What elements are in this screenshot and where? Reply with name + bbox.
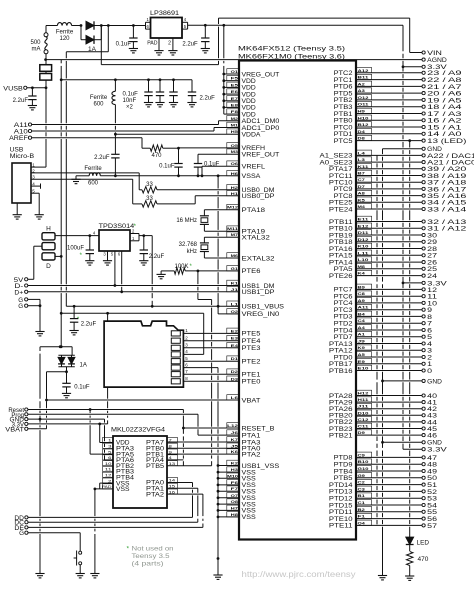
- svg-text:D2: D2: [231, 369, 239, 374]
- svg-text:A11: A11: [14, 123, 29, 129]
- capacitor C12 2.2uF (TPD out): [140, 236, 165, 261]
- ground (LP pad): [154, 51, 163, 55]
- svg-text:B7: B7: [358, 171, 366, 176]
- node D-: [14, 284, 27, 290]
- svg-text:C9: C9: [358, 452, 366, 457]
- svg-text:E7: E7: [231, 96, 239, 101]
- svg-text:GND: GND: [427, 146, 442, 153]
- node GND (right 3): [381, 440, 442, 447]
- node 5V: [14, 278, 34, 284]
- wire D pad to VUSB rail: [55, 255, 63, 258]
- pin 6 SD GND: [183, 362, 218, 367]
- wire VDDA: [115, 133, 239, 135]
- svg-text:kHz: kHz: [187, 249, 197, 255]
- capacitor C10 0.1uF (VREF_OUT): [194, 154, 220, 176]
- wire net D- (USB1_DM): [28, 285, 239, 287]
- wire 470 to VREFH: [163, 147, 239, 150]
- svg-text:PTE5: PTE5: [242, 331, 262, 338]
- svg-text:13: 13: [169, 461, 177, 466]
- svg-text:B2: B2: [358, 507, 366, 512]
- svg-text:B11: B11: [358, 75, 370, 80]
- capacitor C7 bank3: [169, 80, 177, 103]
- wire VIN branch down: [66, 26, 108, 52]
- svg-text:C8: C8: [358, 291, 366, 296]
- svg-text:J6: J6: [231, 430, 240, 435]
- ground (bank3): [169, 103, 178, 107]
- pin 2 LP38691: [168, 38, 173, 51]
- wire net VIN top rail: [101, 18, 409, 65]
- svg-text:H: H: [46, 226, 51, 233]
- svg-text:16 MHz: 16 MHz: [176, 218, 197, 224]
- wire net VSSA drop (R_a): [217, 176, 220, 308]
- capacitor C11 100uF: [67, 236, 94, 261]
- wire USB shield: [16, 203, 18, 215]
- svg-text:C12: C12: [358, 417, 370, 422]
- node AREF: [9, 136, 32, 142]
- connector J2 micro SD card: [104, 321, 183, 387]
- ground (100uF): [85, 261, 94, 265]
- svg-text:10: 10: [105, 461, 113, 466]
- wire MKL PTA0 to DD: [167, 483, 193, 518]
- wire diode output: [94, 24, 145, 27]
- jumper pad H: [42, 226, 55, 240]
- svg-text:LP38691: LP38691: [150, 10, 179, 17]
- svg-text:D3: D3: [231, 376, 239, 381]
- svg-text:D10: D10: [358, 410, 370, 415]
- wire A11 to ADC1_DM0: [32, 121, 239, 125]
- svg-text:VREG_IN0: VREG_IN0: [242, 311, 280, 318]
- svg-text:2: 2: [168, 41, 171, 47]
- ground (USB shield): [13, 215, 22, 219]
- svg-text:J1: J1: [231, 287, 240, 292]
- svg-text:PTB5: PTB5: [146, 464, 165, 470]
- svg-text:0.1uF: 0.1uF: [159, 164, 175, 170]
- node VUSB: [3, 86, 47, 92]
- svg-text:E2: E2: [231, 328, 239, 333]
- svg-text:57: 57: [427, 523, 437, 530]
- svg-text:5V: 5V: [14, 278, 23, 284]
- wire LP output join: [187, 22, 189, 29]
- wire VBAT tap: [45, 372, 66, 429]
- svg-text:E12: E12: [358, 223, 370, 228]
- svg-text:0: 0: [427, 368, 432, 375]
- ground (USB pin5): [35, 215, 44, 219]
- svg-text:C1: C1: [358, 500, 366, 505]
- svg-text:K10: K10: [358, 244, 370, 249]
- svg-text:33: 33: [146, 196, 153, 202]
- node 3.3V (bottom): [403, 447, 448, 454]
- svg-text:VIN: VIN: [427, 50, 442, 57]
- ground (AGND bead): [71, 179, 80, 183]
- capacitor C1 0.1uF (LP38691 input): [116, 26, 138, 49]
- pin 4 USB ID: [31, 182, 41, 189]
- pin 4 TPD3S014: [93, 230, 96, 235]
- wire TPD output down: [151, 236, 154, 308]
- svg-text:3.3V: 3.3V: [427, 447, 448, 454]
- wire MKL PTB1 to chip PTA2: [167, 453, 239, 455]
- pin MKL02 VSS wires: [94, 483, 114, 573]
- node GND (right 1): [383, 146, 443, 153]
- pin 5 TPD3S014: [111, 251, 116, 287]
- svg-text:L10: L10: [358, 257, 370, 262]
- inductor L3 Ferrite 600 (VDDA filter): [90, 80, 117, 155]
- svg-text:D9: D9: [358, 430, 366, 435]
- crystal Y2 32.768 kHz: [179, 237, 239, 258]
- svg-text:2.2uF: 2.2uF: [81, 322, 97, 328]
- pin 1 LP38691: [146, 17, 151, 22]
- svg-text:LED: LED: [417, 540, 430, 547]
- svg-text:10nF: 10nF: [123, 98, 137, 104]
- svg-text:http://www.pjrc.com/teensy: http://www.pjrc.com/teensy: [242, 570, 356, 579]
- wire VBAT diode feed: [40, 345, 72, 355]
- svg-text:3.3V: 3.3V: [427, 280, 448, 287]
- resistor R2 33 (USB0_DM): [139, 173, 239, 193]
- svg-text:H2: H2: [231, 185, 239, 190]
- svg-text:H1: H1: [231, 191, 239, 196]
- fuse F1 500mA (polyfuse): [30, 26, 48, 65]
- resistor R4 100K (PTE6): [161, 264, 239, 274]
- wire rail VIN-branch vertical: [65, 52, 67, 306]
- svg-text:K9: K9: [358, 345, 366, 350]
- pin 3 SD (PTE3): [183, 343, 239, 348]
- svg-text:H10: H10: [358, 115, 370, 120]
- node G (2): [18, 304, 41, 310]
- ground (left rail): [35, 574, 44, 578]
- svg-text:H12: H12: [358, 391, 370, 396]
- svg-text:D11: D11: [358, 230, 370, 235]
- svg-text:M12: M12: [227, 205, 239, 210]
- svg-text:MK64FX512 (Teensy 3.5): MK64FX512 (Teensy 3.5): [238, 46, 345, 53]
- wire G risers to ground: [39, 299, 41, 331]
- svg-text:VREF_OUT: VREF_OUT: [242, 152, 280, 159]
- wire bus aux (right): [376, 155, 378, 524]
- svg-text:J5: J5: [231, 443, 240, 448]
- svg-text:K1: K1: [231, 281, 239, 286]
- svg-text:A5: A5: [358, 352, 366, 357]
- svg-text:H7: H7: [231, 505, 239, 510]
- node AGND: [422, 57, 447, 64]
- svg-text:G: G: [18, 304, 23, 310]
- wire net GND bus (SD/MKL): [217, 368, 220, 575]
- wire net VDD cap bus: [61, 78, 192, 81]
- pin 4 LP38691: [182, 17, 188, 22]
- LED D3: [406, 537, 429, 551]
- pin 7 SD (PTE1): [183, 369, 239, 374]
- svg-text:0.1uF: 0.1uF: [116, 42, 132, 48]
- jumper pad mid (5V): [42, 243, 55, 250]
- svg-text:K4: K4: [358, 271, 366, 276]
- svg-text:VSSA: VSSA: [242, 173, 262, 180]
- wire net AGND: [44, 58, 422, 61]
- svg-text:A11: A11: [358, 305, 370, 310]
- IC U1 MK64FX512/MK66FX1M0: [238, 46, 356, 540]
- main chip right pins, wires and pads: [320, 68, 474, 530]
- connector J1 USB Micro-B: [10, 148, 35, 204]
- wire 3.3V-SD riser to pads: [107, 313, 109, 424]
- wire ferrite to diodes: [72, 24, 83, 27]
- svg-text:EXTAL32: EXTAL32: [242, 255, 276, 262]
- svg-text:600: 600: [93, 102, 104, 108]
- svg-text:PTA2: PTA2: [242, 451, 262, 458]
- svg-text:120: 120: [59, 36, 70, 42]
- inductor L1 Ferrite 120: [56, 23, 74, 42]
- svg-text:PTE4: PTE4: [242, 338, 262, 345]
- wire A10 to ADC1_DP0: [32, 128, 239, 132]
- svg-text:O5: O5: [231, 143, 239, 148]
- svg-text:M10: M10: [227, 473, 239, 478]
- wire net USB1_VBUS: [66, 305, 239, 308]
- node D+: [14, 290, 27, 296]
- pin 3 TPD3S014: [103, 251, 107, 261]
- ground (bank1): [144, 103, 153, 107]
- ground (LP output cap): [201, 49, 210, 53]
- wire net VDD bus (left): [222, 25, 239, 114]
- wire diode to cap: [65, 367, 68, 384]
- svg-text:O2: O2: [231, 309, 239, 314]
- svg-text:C7: C7: [358, 177, 366, 182]
- svg-text:VBAT: VBAT: [5, 427, 24, 433]
- pin 5 SD (PTE2): [183, 356, 239, 361]
- capacitor C4 2.2uF (VDDA): [94, 154, 119, 176]
- svg-text:D8: D8: [358, 136, 366, 141]
- node G (1): [18, 298, 40, 304]
- svg-text:J9: J9: [358, 339, 367, 344]
- pin 4 SD VDD: [183, 349, 203, 354]
- wire VBAT to chip: [47, 399, 240, 401]
- wire 3.3V net left: [28, 423, 113, 443]
- svg-text:C3: C3: [358, 486, 366, 491]
- svg-text:VREFL: VREFL: [242, 164, 266, 171]
- svg-text:A2: A2: [358, 81, 366, 86]
- wire VUSB to USB pin1: [45, 88, 47, 167]
- SD card contact pads 1-8: [171, 331, 180, 384]
- svg-text:USB1_DP: USB1_DP: [242, 289, 275, 296]
- svg-text:PTE6: PTE6: [242, 268, 262, 275]
- wire MKL PTA1 to DC: [167, 488, 198, 522]
- svg-text:E6: E6: [231, 89, 239, 94]
- svg-text:A10: A10: [14, 130, 29, 136]
- watermark: [242, 570, 356, 579]
- wire button to ground: [79, 565, 81, 574]
- svg-text:M11: M11: [227, 226, 239, 231]
- ground (VBUS cap): [70, 331, 79, 335]
- capacitor C2 2.2uF (LP output): [182, 24, 209, 49]
- wire chip VSS stubs: [218, 466, 239, 517]
- wire net GND bus (right): [382, 149, 384, 576]
- wire GND rail left vertical: [39, 347, 41, 574]
- pin 1 USB VBUS: [31, 163, 46, 168]
- svg-text:O6: O6: [231, 161, 239, 166]
- note not-used: [127, 546, 174, 568]
- svg-text:Micro-B: Micro-B: [10, 154, 35, 160]
- svg-text:32.768: 32.768: [179, 242, 198, 248]
- svg-text:K5: K5: [358, 197, 366, 202]
- svg-text:(4 parts): (4 parts): [132, 562, 164, 568]
- svg-text:O11: O11: [358, 102, 370, 107]
- svg-text:F7: F7: [231, 486, 240, 491]
- ground (bank2): [155, 103, 164, 107]
- node GND (right 2): [381, 378, 442, 385]
- svg-text:F8: F8: [231, 109, 240, 114]
- pin 3 USB D+: [31, 175, 133, 180]
- svg-text:3.3V: 3.3V: [427, 64, 448, 71]
- wire TPD output: [139, 234, 152, 237]
- node Prog: [11, 413, 28, 419]
- svg-text:Ferrite: Ferrite: [90, 95, 108, 101]
- svg-text:PTB21: PTB21: [329, 432, 353, 439]
- svg-text:L12: L12: [227, 423, 239, 428]
- svg-text:470: 470: [151, 153, 162, 159]
- jumper pad D: [42, 253, 55, 270]
- wire rail VUSB-raw vertical: [60, 60, 63, 349]
- svg-text:B12: B12: [358, 122, 370, 127]
- node 3.3V (mid): [402, 280, 448, 287]
- node DE: [14, 526, 203, 532]
- node DD: [14, 516, 192, 522]
- wire fuse top: [46, 25, 57, 27]
- diode D1a 1A: [86, 21, 94, 29]
- svg-text:Teensy 3.5: Teensy 3.5: [132, 554, 171, 560]
- pin 6 TPD3S014: [118, 251, 123, 293]
- wire net LED: [408, 139, 411, 537]
- svg-text:O4: O4: [358, 520, 366, 525]
- svg-text:USB0_DP: USB0_DP: [242, 193, 275, 200]
- svg-text:A8: A8: [358, 191, 366, 196]
- wire Reset net: [28, 408, 184, 411]
- svg-text:470: 470: [418, 556, 429, 563]
- ground (VBAT cap): [62, 393, 71, 397]
- ground (bank4): [187, 103, 196, 107]
- svg-text:J11: J11: [358, 404, 370, 409]
- ground (LED): [405, 576, 414, 580]
- wire 5V pad riser: [34, 246, 42, 279]
- svg-text:C4: C4: [358, 318, 366, 323]
- svg-text:A1: A1: [358, 332, 366, 337]
- svg-text:D: D: [46, 263, 51, 270]
- wire net VSSA bus: [100, 174, 239, 177]
- svg-text:H9: H9: [358, 109, 366, 114]
- svg-text:L1: L1: [231, 301, 240, 306]
- svg-text:K6: K6: [231, 449, 239, 454]
- svg-text:PTE1: PTE1: [242, 372, 262, 379]
- wire MKL PTB0 to chip PTA0: [167, 447, 239, 449]
- resistor R1 470: [142, 145, 163, 159]
- svg-text:M2: M2: [231, 116, 239, 121]
- ground (G pads): [35, 332, 44, 336]
- node VIN: [410, 18, 443, 57]
- wire net PTE6-PTB5: [198, 271, 212, 466]
- wire H pad to TPD pin4: [55, 234, 99, 237]
- node DC: [14, 521, 197, 527]
- svg-text:A3: A3: [358, 88, 366, 93]
- svg-text:C11: C11: [358, 424, 370, 429]
- regulator U2 LP38691: [150, 10, 182, 38]
- svg-text:Ferrite: Ferrite: [84, 166, 102, 172]
- ground (TPD out cap): [139, 261, 148, 265]
- svg-text:A4: A4: [358, 325, 366, 330]
- svg-text:PTA2: PTA2: [146, 492, 165, 498]
- node VBAT pad: [5, 427, 28, 433]
- svg-text:2.2uF: 2.2uF: [13, 98, 29, 104]
- svg-text:2.2uF: 2.2uF: [182, 42, 198, 48]
- diode D1b 1A (parallel): [81, 26, 101, 54]
- svg-text:E10: E10: [358, 366, 370, 371]
- inductor L4 Ferrite 600 (AGND bead): [76, 166, 102, 187]
- svg-text:PTB16: PTB16: [329, 368, 353, 375]
- svg-text:D12: D12: [358, 237, 370, 242]
- svg-text:B4: B4: [358, 311, 366, 316]
- ground (button): [76, 574, 85, 578]
- MKL02 right pin names: [146, 437, 177, 498]
- node Reset: [8, 408, 28, 414]
- svg-text:0.1uF: 0.1uF: [123, 92, 139, 98]
- svg-text:G: G: [19, 531, 24, 537]
- wire Prog net: [28, 414, 239, 435]
- node A11: [14, 123, 32, 129]
- svg-text:33 / A14: 33 / A14: [427, 206, 467, 213]
- svg-text:PTE26: PTE26: [329, 273, 353, 280]
- svg-text:12: 12: [105, 473, 113, 478]
- wire net 3.3V top rail: [188, 24, 403, 27]
- svg-text:AREF: AREF: [9, 136, 28, 142]
- svg-text:PTE0: PTE0: [242, 379, 262, 386]
- svg-text:B10: B10: [358, 459, 370, 464]
- IC U3 TPD3S014: [99, 223, 137, 251]
- svg-text:33: 33: [146, 182, 153, 188]
- svg-text:46: 46: [427, 433, 437, 440]
- svg-text:2.2uF: 2.2uF: [200, 96, 216, 102]
- pin MKL02 PTA5 wire (Reset): [90, 410, 113, 455]
- svg-text:H8: H8: [231, 512, 239, 517]
- svg-text:USB1_VBUS: USB1_VBUS: [242, 304, 285, 311]
- svg-text:M6: M6: [231, 253, 239, 258]
- wire AREF: [32, 138, 142, 149]
- resistor R3 33 (USB0_DP): [133, 179, 239, 207]
- IC U4 MKL02Z32VFG4: [111, 427, 167, 509]
- wire VREF_OUT: [198, 153, 239, 155]
- svg-text:2.2uF: 2.2uF: [94, 155, 110, 161]
- svg-text:A9: A9: [358, 298, 366, 303]
- svg-text:O1: O1: [231, 69, 239, 74]
- pin 2 TPD3S014: [130, 229, 139, 234]
- svg-text:PTE24: PTE24: [329, 206, 353, 213]
- svg-text:VSS: VSS: [116, 487, 130, 493]
- svg-text:1A: 1A: [80, 363, 87, 369]
- svg-text:O12: O12: [358, 95, 370, 100]
- wire MKL PTA7 to chip PTA3: [167, 441, 239, 443]
- svg-text:K11: K11: [358, 164, 370, 169]
- svg-text:L3: L3: [358, 157, 367, 162]
- svg-text:D7: D7: [358, 184, 366, 189]
- svg-text:M3: M3: [231, 149, 239, 154]
- node G (program): [19, 531, 80, 537]
- wire VREFL: [202, 166, 239, 176]
- svg-text:14: 14: [169, 478, 177, 483]
- capacitor C5 bank1: [144, 80, 152, 103]
- wire RESET_B row: [183, 427, 239, 429]
- svg-text:E8: E8: [231, 102, 239, 107]
- svg-text:16: 16: [169, 489, 177, 494]
- svg-text:B1: B1: [358, 493, 366, 498]
- svg-text:O7: O7: [231, 493, 239, 498]
- wire LP input join: [145, 22, 147, 29]
- svg-text:600: 600: [88, 181, 99, 187]
- svg-text:USB: USB: [10, 148, 24, 154]
- svg-text:M7: M7: [231, 232, 239, 237]
- ground (LP pin2): [168, 51, 177, 55]
- svg-text:RESET_B: RESET_B: [242, 425, 275, 432]
- ground (input cap): [129, 49, 138, 53]
